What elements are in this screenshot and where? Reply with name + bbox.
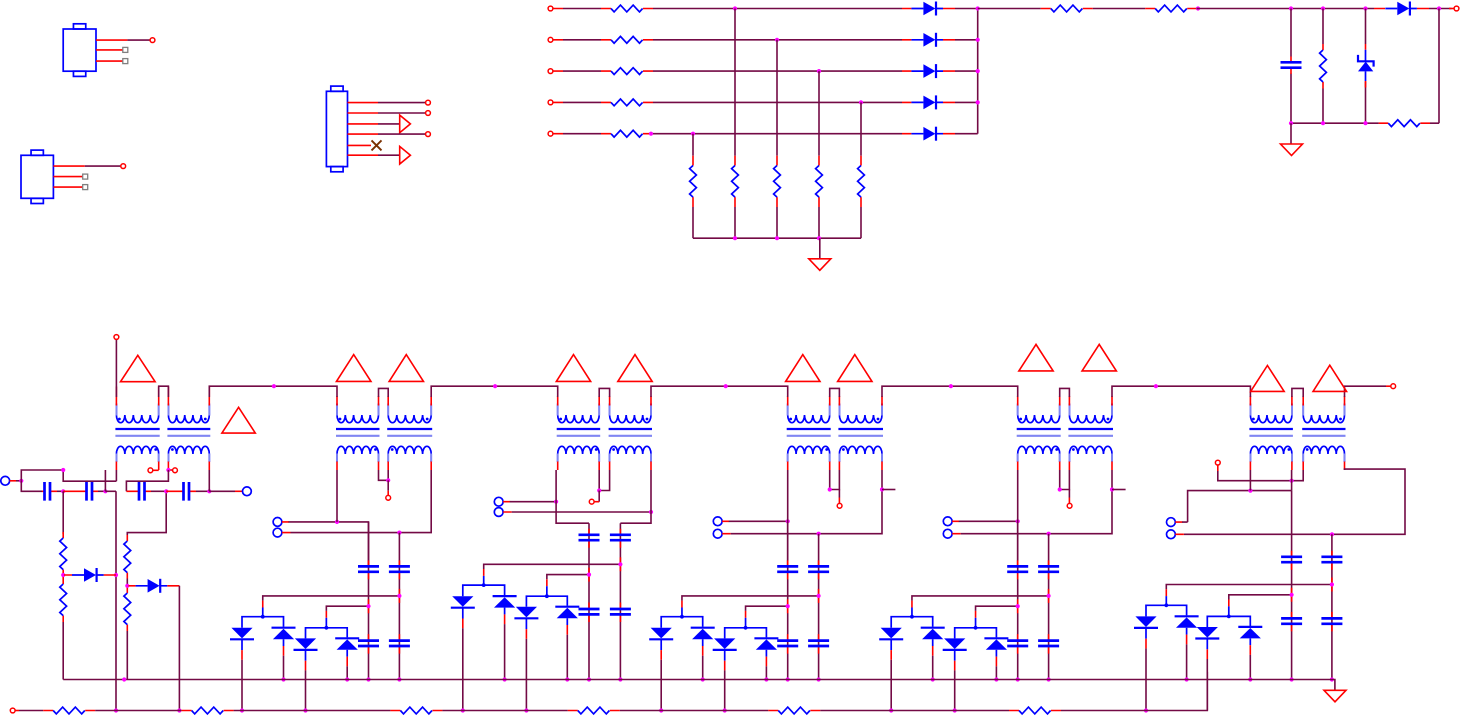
thyristor Q2d: [335, 638, 359, 656]
junction: [817, 677, 821, 681]
transformer T3 top pins: [558, 396, 651, 406]
resistor R15: [60, 538, 67, 570]
port P3 lower: [273, 528, 282, 537]
port P3 pins: [282, 522, 291, 533]
wire C12 chain: [1017, 521, 1019, 679]
wire T4b right lead: [881, 470, 883, 490]
wire T1b right lead: [208, 470, 210, 491]
port output: [1454, 6, 1459, 11]
junction: [618, 562, 622, 566]
junction: [976, 69, 980, 73]
winding T5b bottom: [1069, 446, 1112, 462]
port tap: [148, 468, 153, 473]
resistor R14: [1388, 120, 1420, 127]
transformer T3b: [609, 404, 652, 463]
junction: [910, 615, 914, 619]
wire port to T1: [115, 340, 117, 398]
wire row4 b: [653, 101, 902, 103]
thyristor Q5c: [943, 638, 967, 660]
port tap: [837, 503, 842, 508]
transformer T1 bottom pins: [116, 462, 209, 471]
wire row1 a: [563, 8, 601, 10]
tap pin: [168, 469, 172, 471]
diode D5 pins: [902, 133, 955, 135]
resistor R12: [1155, 5, 1187, 12]
core T2b: [387, 428, 432, 430]
wire C14 chain: [1291, 491, 1293, 680]
wire P7l loop: [1184, 469, 1405, 534]
J2 pin 1: [53, 165, 84, 167]
capacitor C6 upper: [358, 566, 379, 571]
J2 pin 3: [53, 186, 82, 188]
wire R16 to rail: [62, 622, 64, 680]
wire bank common rail: [693, 237, 861, 239]
wire Q4 riser 1: [681, 608, 683, 617]
core T4a: [787, 428, 831, 430]
J3 pin 3: [348, 123, 379, 125]
Q6 riser pin: [1228, 600, 1230, 607]
output pin: [1386, 385, 1391, 387]
wire Q5 tie 1: [891, 617, 933, 628]
diode D6 pins: [1374, 8, 1429, 10]
winding T2a bottom: [337, 446, 378, 462]
junction: [1248, 489, 1252, 493]
port tap: [386, 495, 391, 500]
junction: [366, 604, 370, 608]
diode D2 pins: [902, 39, 955, 41]
arrow marker pin 6: [400, 146, 411, 164]
Q5a cathode pin: [890, 650, 892, 660]
Q6c cathode pin: [1206, 649, 1208, 659]
wire stage rail 4: [882, 386, 1018, 397]
resistor R11: [1051, 5, 1083, 12]
thyristor Q6b: [1175, 616, 1199, 634]
Q5c cathode pin: [954, 661, 956, 671]
wire C13 chain: [1048, 534, 1050, 680]
Q5b anode pin: [932, 646, 934, 656]
junction: [397, 677, 401, 681]
junction: [1164, 603, 1168, 607]
wire C4-C5: [151, 490, 166, 492]
J1 pin 3: [96, 60, 123, 62]
junction: [931, 677, 935, 681]
thyristor Q6d: [1238, 627, 1262, 645]
junction: [335, 520, 339, 524]
wire J3 pin2: [378, 112, 426, 114]
thyristor Q3b: [493, 596, 517, 614]
thyristor Q2c: [294, 638, 318, 660]
Q2c cathode pin: [305, 661, 307, 671]
bank resistor R6 pins: [734, 156, 736, 207]
Q3d anode pin: [566, 625, 568, 635]
wire Q5 tie 2: [955, 628, 997, 639]
port P4 upper: [494, 497, 503, 506]
Q2 riser pin: [262, 601, 264, 608]
capacitor C11 upper: [808, 566, 829, 571]
marker triangle 10: [1082, 344, 1116, 371]
wire to R15: [62, 491, 64, 534]
thyristor Q4b: [691, 628, 715, 646]
J2 pin 2: [53, 176, 82, 178]
J1 pin 2: [96, 49, 123, 51]
transformer T4b: [838, 404, 883, 463]
Q2a cathode pin: [241, 650, 243, 660]
C9 pins: [619, 529, 621, 622]
wire drop to bank R8: [818, 71, 820, 156]
Q3b anode pin: [504, 614, 506, 624]
wire Q3 riser 2: [546, 586, 548, 596]
thyristor Q5d: [984, 638, 1008, 656]
wire stage rail 1: [209, 386, 337, 397]
wire T6a right lead: [1291, 470, 1293, 491]
wire P5u: [729, 520, 788, 522]
junction: [1330, 582, 1334, 586]
wire row2 b: [653, 39, 902, 41]
wire bottom bus: [1291, 122, 1379, 124]
junction: [114, 708, 118, 712]
wire tap stub: [838, 490, 840, 498]
junction: [775, 236, 779, 240]
wire J3 pin3: [378, 123, 400, 125]
junction: [1047, 594, 1051, 598]
wire Q6 gate net 2: [1229, 595, 1292, 600]
capacitor C14 upper: [1281, 557, 1302, 562]
resistor R17 pins: [126, 535, 128, 593]
marker triangle 6: [618, 355, 652, 382]
bank resistor R9 pins: [860, 156, 862, 207]
resistor R22: [578, 707, 610, 714]
wire Q3b to rail1: [504, 624, 506, 679]
winding T2a top: [337, 404, 378, 423]
Q6a cathode pin: [1145, 639, 1147, 649]
wire Q2 gate net 1: [263, 596, 400, 601]
core T6a: [1249, 428, 1293, 430]
transformer T2a: [336, 404, 380, 463]
junction: [764, 677, 768, 681]
port tap: [1215, 460, 1220, 465]
core T5b: [1068, 428, 1113, 430]
wire P1 to C2: [21, 481, 42, 492]
wire rail2 seg 4: [442, 710, 567, 712]
C8 pins: [588, 529, 590, 622]
wire Q5a to rail2: [890, 660, 892, 711]
wire out a: [978, 8, 1041, 10]
junction: [324, 626, 328, 630]
wire T2a lead down: [336, 470, 338, 522]
core T1a: [115, 428, 159, 430]
J3 pin 4: [348, 133, 379, 135]
transformer T6 lead stubs: [1250, 405, 1344, 462]
diode D3 pins: [902, 70, 955, 72]
wire Q5b to rail1: [932, 656, 934, 680]
wire row5 b: [653, 133, 902, 135]
C6 pins: [368, 560, 370, 653]
rail2 resistor R19 pins: [43, 710, 95, 712]
C10 pins: [787, 560, 789, 653]
Q6d anode pin: [1249, 645, 1251, 655]
port P7 lower: [1167, 530, 1176, 539]
resistor R12 pins: [1145, 8, 1196, 10]
junction: [744, 626, 748, 630]
core T3b: [609, 428, 652, 430]
junction: [649, 510, 653, 514]
capacitor C1: [1281, 62, 1302, 67]
thyristor Q4c: [713, 638, 737, 660]
tap pin: [387, 491, 389, 496]
transformer T1b: [167, 404, 210, 463]
wire stub: [104, 470, 106, 491]
ground: [1281, 144, 1303, 156]
Q2b anode pin: [283, 646, 285, 656]
wire rail2 seg 1: [19, 710, 43, 712]
junction: [386, 478, 390, 482]
bank resistor R8 pins: [818, 156, 820, 207]
wire Q4 tie 1: [661, 617, 703, 628]
diode D4: [911, 95, 943, 109]
wire C15 chain: [1331, 534, 1333, 679]
wire P1: [16, 480, 21, 482]
resistor R20: [192, 707, 224, 714]
wire Q4a to rail2: [660, 660, 662, 711]
junction: [19, 479, 23, 483]
capacitor C5: [184, 482, 190, 501]
port P4 pins: [503, 502, 512, 512]
junction: [207, 489, 211, 493]
thyristor Q2b: [272, 628, 296, 646]
junction: [177, 708, 181, 712]
wire rail2 seg 6: [820, 710, 1009, 712]
connector J2: [21, 150, 53, 203]
resistor R8: [816, 166, 823, 198]
port input 5: [548, 131, 553, 136]
wire T6 bridge: [1292, 388, 1303, 397]
wire Q3 tie 2: [526, 596, 567, 607]
junction: [164, 489, 168, 493]
Q5d anode pin: [995, 657, 997, 667]
Q4 riser pin: [681, 601, 683, 608]
Q6 riser pin: [1165, 589, 1167, 596]
junction: [1437, 6, 1441, 10]
junction: [1290, 479, 1294, 483]
junction: [597, 488, 601, 492]
junction: [724, 384, 728, 388]
wire Q6b to rail1: [1186, 644, 1188, 679]
junction: [397, 531, 401, 535]
capacitor C11 lower: [808, 641, 829, 646]
wire to chain: [105, 490, 116, 492]
junction: [786, 677, 790, 681]
capacitor C4: [139, 482, 145, 501]
port input 3: [548, 69, 553, 74]
wire P6l loop: [961, 490, 1112, 534]
winding T1b top: [168, 404, 209, 423]
wire row3 c: [955, 70, 978, 72]
wire P5l loop: [731, 490, 882, 534]
thyristor Q5b: [921, 628, 945, 646]
port tap: [173, 468, 178, 473]
port input 4: [548, 100, 553, 105]
junction: [565, 677, 569, 681]
wire P3l to T2b lead: [291, 470, 432, 533]
winding T4a bottom: [788, 446, 830, 462]
marker triangle 2: [222, 407, 255, 433]
Q4c cathode pin: [724, 661, 726, 671]
wire row4 c: [955, 101, 978, 103]
junction: [122, 677, 126, 681]
wire Q3a to rail2: [462, 628, 464, 710]
junction: [733, 6, 737, 10]
wire rail2 seg 3: [234, 710, 391, 712]
marker triangle 9: [1019, 344, 1053, 371]
transformer T6 bottom pins: [1250, 462, 1344, 471]
wire P4u: [510, 501, 556, 503]
wire to output port: [1429, 8, 1452, 10]
capacitor C14 lower: [1281, 618, 1302, 623]
core T2a: [336, 428, 380, 430]
junction: [817, 236, 821, 240]
junction: [61, 489, 65, 493]
capacitor C13 upper: [1038, 566, 1059, 571]
junction: [493, 384, 497, 388]
Q4d anode pin: [765, 657, 767, 667]
junction: [61, 573, 65, 577]
port rail2: [10, 708, 15, 713]
C11 pins: [818, 560, 820, 653]
diode D4 pins: [902, 101, 955, 103]
junction: [733, 236, 737, 240]
junction: [786, 604, 790, 608]
winding T4a top: [788, 404, 830, 423]
bank resistor R7 pins: [776, 156, 778, 207]
capacitor C2 pins: [42, 490, 57, 492]
capacitor C13 lower: [1038, 641, 1059, 646]
junction: [103, 489, 107, 493]
junction: [1321, 6, 1325, 10]
port: [114, 335, 119, 340]
junction: [587, 573, 591, 577]
resistor R13: [1320, 50, 1327, 82]
wire Q4 gate net 1: [682, 596, 819, 601]
junction: [976, 6, 980, 10]
wire T3b lead to chain: [620, 470, 651, 523]
wire C7 chain: [398, 533, 400, 680]
wire T2 bridge: [379, 388, 389, 397]
wire C10 chain: [787, 521, 789, 679]
junction: [545, 594, 549, 598]
winding T1a top: [116, 404, 158, 423]
port: [426, 132, 431, 137]
port P7 upper: [1167, 518, 1176, 527]
junction: [649, 132, 653, 136]
resistor R23: [778, 707, 810, 714]
wire Q2 gate net 2: [326, 606, 368, 611]
Q4a cathode pin: [660, 650, 662, 660]
transformer T3 lead stubs: [558, 405, 651, 462]
winding T3a bottom: [558, 446, 599, 462]
port: [426, 111, 431, 116]
resistor R4: [611, 99, 643, 106]
wire P7u to chain: [1182, 491, 1292, 522]
tap pin: [1068, 498, 1070, 504]
resistor R18 pins: [126, 625, 128, 631]
junction: [1047, 532, 1051, 536]
wire C6 chain: [368, 522, 370, 680]
no-connect X: [372, 140, 382, 150]
wire Q6c to rail2: [1206, 659, 1208, 711]
rail2 resistor R22 pins: [568, 710, 620, 712]
diode D5: [911, 127, 943, 141]
wire T5b right lead: [1111, 470, 1113, 490]
port: [121, 164, 126, 169]
wire tap to R17: [127, 491, 166, 535]
rail2 resistor R21 pins: [390, 710, 442, 712]
junction: [1321, 121, 1325, 125]
wire stub: [882, 489, 895, 491]
junction: [976, 100, 980, 104]
wire bank R9 to rail: [860, 207, 862, 238]
connector J1: [63, 24, 96, 77]
junction: [554, 500, 558, 504]
core T4b: [838, 428, 883, 430]
junction: [974, 626, 978, 630]
junction: [1330, 677, 1334, 681]
marker triangle 3: [336, 355, 371, 382]
junction: [1016, 519, 1020, 523]
junction: [503, 677, 507, 681]
port P1: [1, 476, 10, 485]
rail2 resistor R24 pins: [1009, 710, 1061, 712]
transformer T2 lead stubs: [337, 405, 431, 462]
marker triangle 5: [556, 355, 590, 382]
junction: [953, 708, 957, 712]
resistor R7: [774, 166, 781, 198]
wire stage rail 2: [431, 386, 558, 397]
wire rail2 seg 2: [95, 710, 181, 712]
transformer T4 lead stubs: [788, 405, 882, 462]
junction: [691, 132, 695, 136]
C7 pins: [398, 560, 400, 653]
diode D7 pins: [64, 574, 116, 576]
output pin: [1449, 8, 1454, 10]
junction: [1330, 532, 1334, 536]
wire T1 bridge: [159, 386, 169, 397]
diode D1 pins: [902, 8, 955, 10]
core T3a: [557, 428, 601, 430]
winding T3b bottom: [610, 446, 651, 462]
wire diode collector: [977, 9, 979, 134]
wire zener branch: [1365, 9, 1367, 124]
wire T3 tap: [599, 470, 609, 491]
port P5 pins: [722, 521, 731, 533]
port P1 pin: [10, 480, 16, 482]
port P2: [243, 487, 252, 496]
capacitor C6 lower: [358, 641, 379, 646]
wire row1 b: [653, 8, 902, 10]
wire: [126, 579, 128, 586]
capacitor C4 pins: [126, 490, 151, 492]
resistor R3: [611, 68, 643, 75]
junction: [1290, 593, 1294, 597]
resistor R13 pins: [1322, 44, 1324, 89]
Q3c cathode pin: [525, 629, 527, 639]
winding T4b bottom: [839, 446, 882, 462]
wire stub: [1112, 489, 1126, 491]
transformer T6a: [1249, 404, 1293, 463]
rail2 resistor R20 pins: [182, 710, 234, 712]
junction: [281, 677, 285, 681]
port: [150, 38, 155, 43]
input pin row 5: [553, 133, 653, 135]
